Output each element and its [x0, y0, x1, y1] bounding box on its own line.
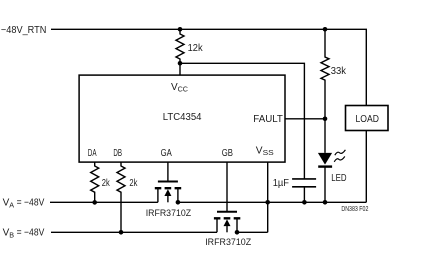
svg-text:GB: GB [222, 148, 233, 159]
svg-text:= −48V: = −48V [14, 198, 44, 209]
svg-text:2k: 2k [102, 178, 111, 189]
svg-text:LTC4354: LTC4354 [163, 112, 202, 123]
svg-text:DB: DB [113, 148, 122, 159]
svg-text:DN383 F02: DN383 F02 [341, 206, 368, 213]
svg-text:CC: CC [178, 85, 188, 94]
svg-text:33k: 33k [331, 66, 347, 77]
svg-text:= −48V: = −48V [14, 228, 44, 239]
svg-text:IRFR3710Z: IRFR3710Z [146, 208, 192, 219]
svg-text:FAULT: FAULT [253, 114, 283, 125]
svg-text:12k: 12k [188, 43, 204, 54]
svg-text:LED: LED [331, 173, 346, 184]
svg-text:DA: DA [88, 148, 97, 159]
svg-text:−48V_RTN: −48V_RTN [1, 25, 47, 36]
svg-text:2k: 2k [129, 178, 138, 189]
svg-text:IRFR3710Z: IRFR3710Z [205, 237, 251, 248]
svg-text:LOAD: LOAD [356, 114, 379, 125]
svg-text:SS: SS [263, 148, 274, 157]
svg-text:1µF: 1µF [273, 178, 289, 189]
svg-text:GA: GA [161, 148, 172, 159]
